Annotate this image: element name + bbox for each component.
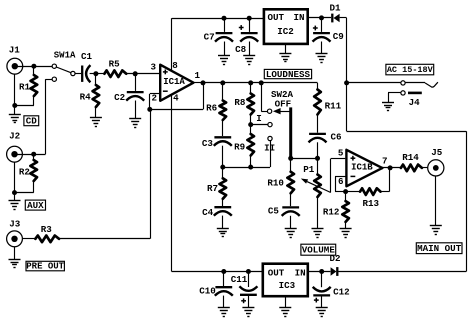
svg-text:J3: J3: [9, 218, 21, 229]
svg-text:C8: C8: [235, 44, 247, 55]
svg-text:IC3: IC3: [279, 280, 296, 291]
svg-text:LOUDNESS: LOUDNESS: [266, 69, 311, 80]
svg-text:CD: CD: [26, 116, 38, 127]
svg-text:OUT: OUT: [268, 267, 285, 278]
svg-text:R6: R6: [206, 103, 217, 114]
svg-text:OUT: OUT: [268, 12, 285, 23]
svg-text:D1: D1: [329, 3, 341, 14]
svg-text:J5: J5: [431, 147, 443, 158]
svg-text:3: 3: [150, 62, 156, 73]
svg-text:1: 1: [195, 70, 201, 81]
svg-text:C2: C2: [114, 92, 125, 103]
svg-text:R3: R3: [41, 224, 53, 235]
svg-text:R13: R13: [363, 198, 380, 209]
svg-text:6: 6: [338, 176, 344, 187]
svg-text:OFF: OFF: [275, 99, 292, 110]
svg-text:R8: R8: [234, 97, 246, 108]
svg-text:IC1B: IC1B: [351, 163, 373, 173]
svg-text:IN: IN: [293, 12, 304, 23]
svg-text:R10: R10: [267, 178, 284, 189]
svg-text:AC 15-18V: AC 15-18V: [387, 65, 434, 75]
svg-text:C10: C10: [199, 285, 216, 296]
svg-text:R2: R2: [19, 167, 30, 178]
svg-text:2: 2: [152, 93, 158, 104]
svg-text:SW1A: SW1A: [54, 51, 76, 61]
svg-text:R7: R7: [207, 183, 218, 194]
svg-text:AUX: AUX: [27, 200, 44, 211]
svg-text:J2: J2: [9, 131, 20, 142]
svg-text:7: 7: [382, 156, 388, 167]
svg-text:C12: C12: [333, 287, 350, 298]
svg-text:R5: R5: [109, 59, 121, 70]
svg-text:PRE OUT: PRE OUT: [26, 261, 64, 271]
svg-text:IC1A: IC1A: [163, 77, 185, 87]
svg-text:C1: C1: [81, 51, 93, 62]
svg-text:C7: C7: [204, 32, 215, 43]
svg-text:D2: D2: [329, 253, 340, 264]
svg-text:R14: R14: [402, 152, 419, 163]
svg-text:R11: R11: [325, 100, 342, 111]
svg-text:R1: R1: [19, 82, 31, 93]
svg-text:R9: R9: [234, 142, 245, 153]
svg-text:5: 5: [338, 147, 344, 158]
svg-text:II: II: [264, 143, 275, 154]
svg-text:J4: J4: [409, 97, 421, 108]
svg-text:C9: C9: [333, 31, 344, 42]
svg-text:C4: C4: [202, 207, 214, 218]
svg-text:C3: C3: [202, 138, 214, 149]
svg-text:4: 4: [173, 93, 179, 104]
svg-text:8: 8: [172, 60, 178, 71]
svg-text:P1: P1: [303, 164, 315, 175]
svg-text:R12: R12: [323, 207, 340, 218]
svg-text:C6: C6: [330, 132, 341, 143]
svg-text:J1: J1: [9, 45, 21, 56]
svg-text:R4: R4: [80, 91, 92, 102]
svg-text:IN: IN: [295, 267, 306, 278]
svg-text:IC2: IC2: [277, 26, 294, 37]
svg-text:C5: C5: [268, 206, 280, 217]
svg-text:MAIN OUT: MAIN OUT: [417, 243, 462, 254]
svg-text:I: I: [256, 113, 262, 124]
svg-text:C11: C11: [231, 274, 248, 285]
